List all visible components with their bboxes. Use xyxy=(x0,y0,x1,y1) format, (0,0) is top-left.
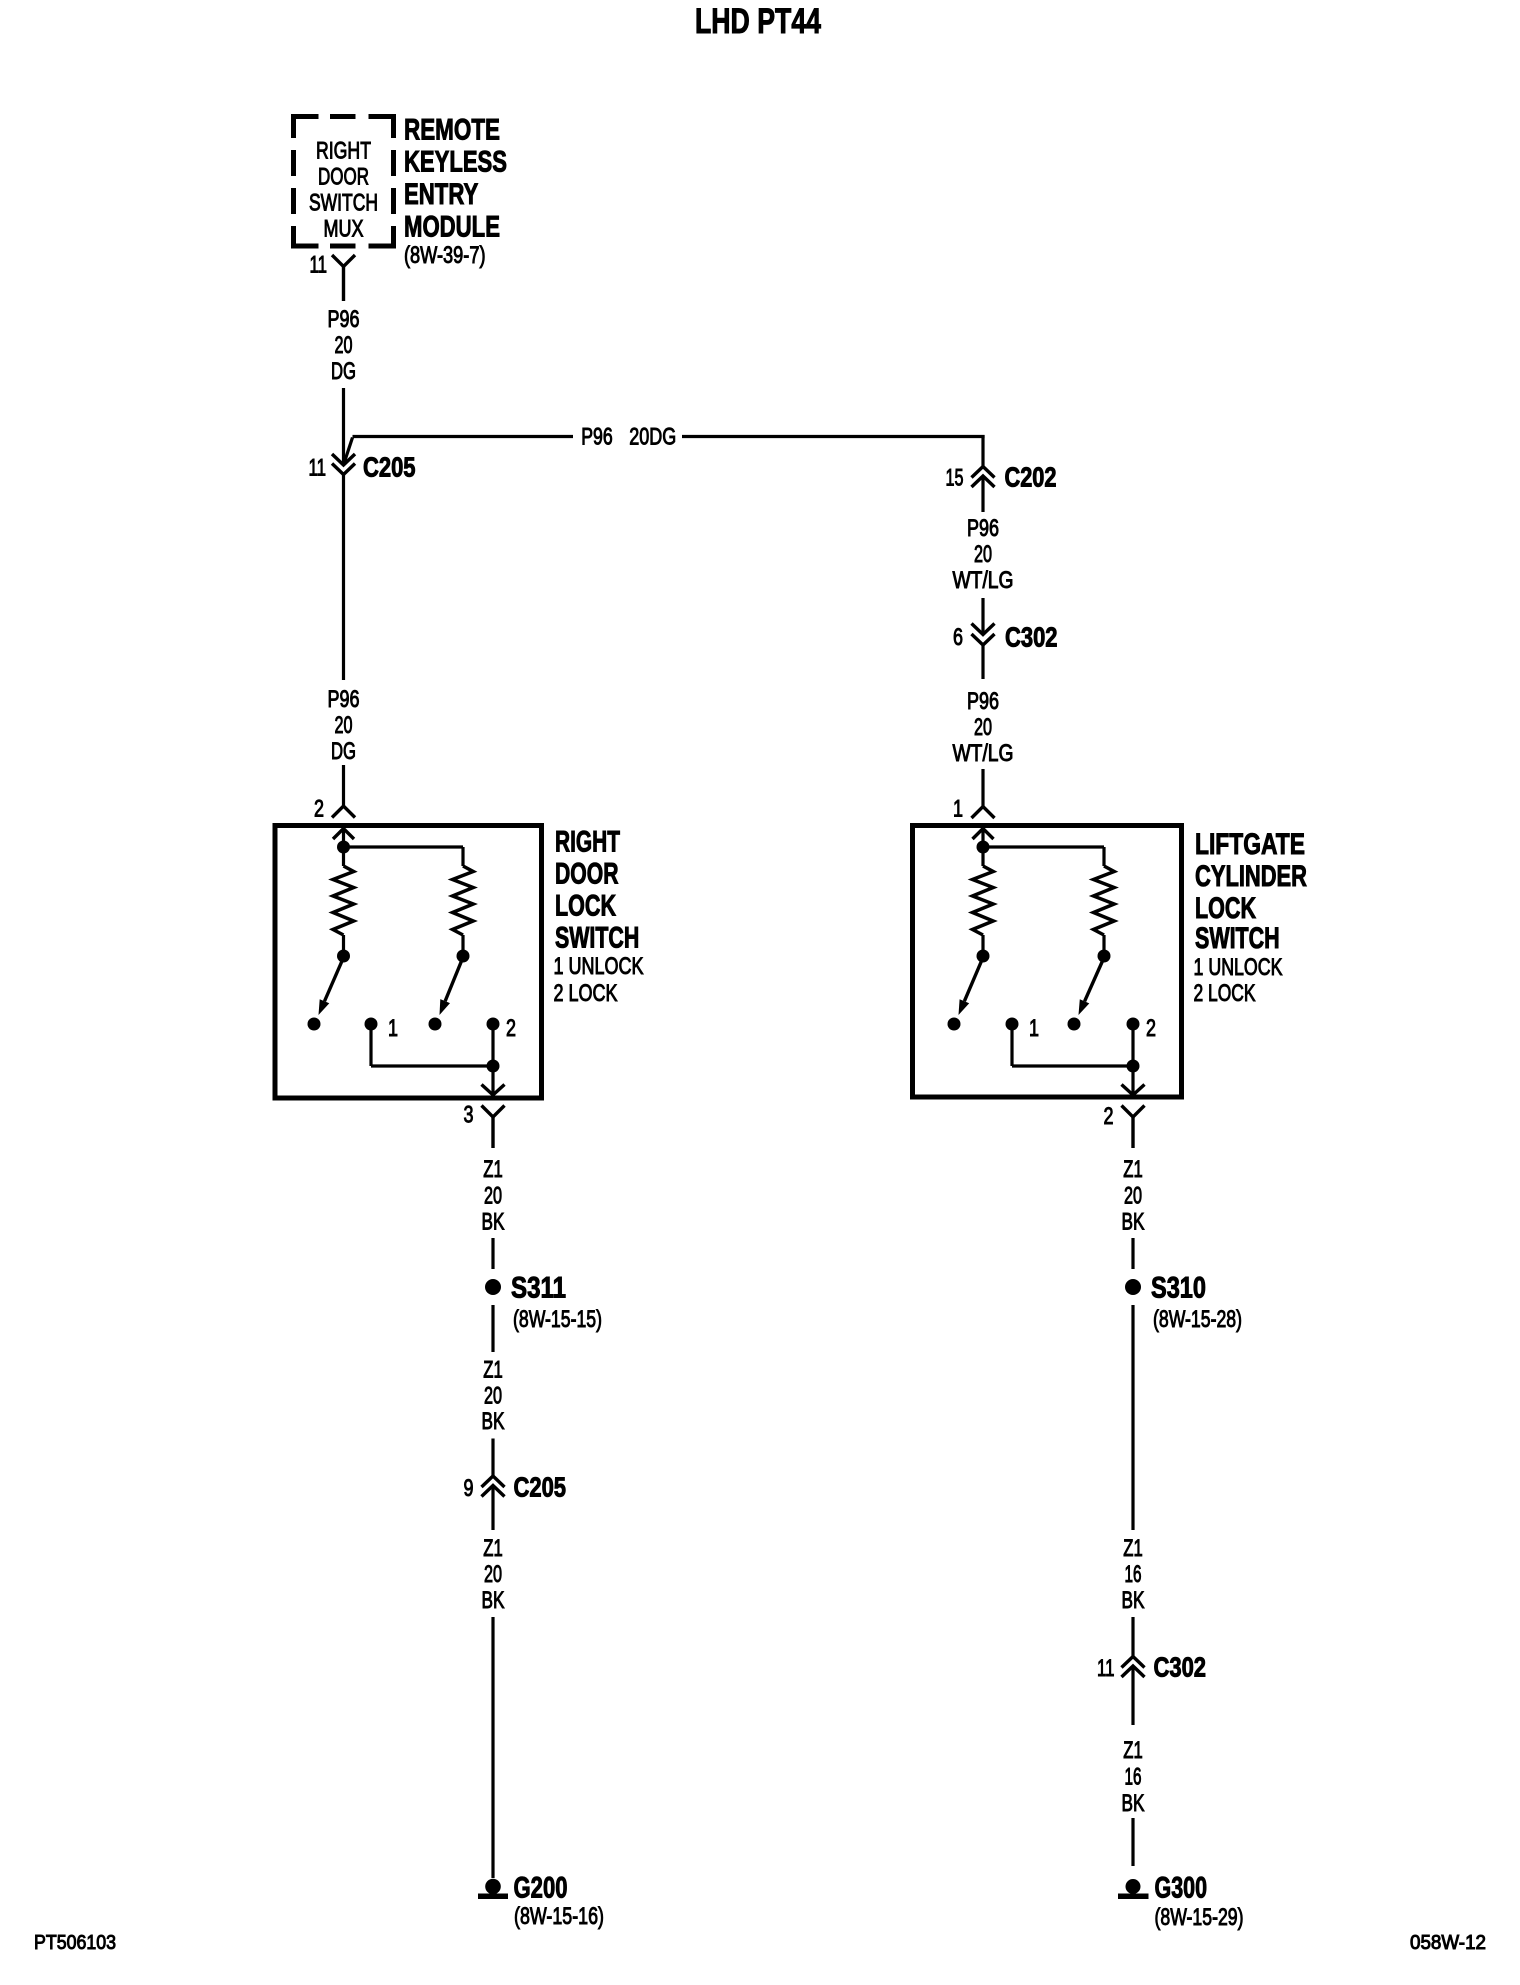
common node dot xyxy=(977,841,990,854)
connector C202 (15) xyxy=(972,467,995,478)
svg-text:BK: BK xyxy=(482,1408,505,1435)
svg-text:S310: S310 xyxy=(1151,1272,1206,1305)
connector C302 (11) lower xyxy=(1122,1657,1145,1668)
svg-text:Z1: Z1 xyxy=(1123,1156,1143,1183)
svg-text:15: 15 xyxy=(946,465,964,492)
switch wiper arrow right xyxy=(1085,961,1103,1001)
svg-text:Z1: Z1 xyxy=(1123,1535,1143,1562)
svg-text:2 LOCK: 2 LOCK xyxy=(554,980,618,1007)
svg-text:C202: C202 xyxy=(1005,462,1057,493)
svg-text:20: 20 xyxy=(335,332,353,359)
svg-text:REMOTE: REMOTE xyxy=(404,114,500,147)
svg-text:(8W-15-16): (8W-15-16) xyxy=(514,1903,604,1930)
svg-text:16: 16 xyxy=(1125,1561,1142,1588)
svg-text:1 UNLOCK: 1 UNLOCK xyxy=(1194,954,1283,981)
wire WT/LG to C302 xyxy=(981,598,984,635)
wire label Z1 20 BK xyxy=(1122,1156,1145,1236)
svg-text:C205: C205 xyxy=(514,1472,567,1503)
svg-text:SWITCH: SWITCH xyxy=(555,922,639,955)
svg-text:(8W-39-7): (8W-39-7) xyxy=(404,242,486,269)
svg-text:Z1: Z1 xyxy=(483,1156,503,1183)
resistor (lock side) xyxy=(1094,866,1115,935)
svg-text:11: 11 xyxy=(310,252,328,279)
svg-text:9: 9 xyxy=(464,1475,474,1502)
svg-text:Z1: Z1 xyxy=(1123,1737,1143,1764)
svg-text:SWITCH: SWITCH xyxy=(1195,922,1280,955)
wire label P96 20 WT/LG xyxy=(953,688,1014,767)
svg-text:MUX: MUX xyxy=(324,216,364,243)
svg-text:P96: P96 xyxy=(967,515,999,542)
contact dot terminal 2 xyxy=(487,1018,500,1031)
svg-text:2: 2 xyxy=(1146,1015,1156,1042)
svg-text:2 LOCK: 2 LOCK xyxy=(1194,980,1256,1007)
svg-text:2: 2 xyxy=(506,1015,516,1042)
module inner label xyxy=(309,137,378,242)
wire BK to splice xyxy=(1131,1238,1134,1269)
wire BK to ground G300 xyxy=(1131,1818,1134,1866)
svg-text:LOCK: LOCK xyxy=(555,890,616,923)
svg-text:CYLINDER: CYLINDER xyxy=(1195,860,1307,893)
pin 2 connector (male) xyxy=(332,806,355,818)
wire DG to pin 2 xyxy=(342,765,345,806)
wire C302 to Z1 xyxy=(1131,1666,1134,1725)
wire terminal 1 to output node xyxy=(369,1024,372,1066)
splice S310 xyxy=(1125,1279,1141,1295)
wire DG to C205 xyxy=(342,388,345,465)
svg-text:RIGHT: RIGHT xyxy=(316,137,371,164)
wire C302 to P96 label xyxy=(981,645,984,679)
svg-text:P96: P96 xyxy=(328,306,360,333)
pin 1 connector (male) xyxy=(972,807,995,819)
svg-text:058W-12: 058W-12 xyxy=(1410,1932,1486,1954)
pin exit arrow inside box xyxy=(1122,1085,1145,1096)
svg-text:1: 1 xyxy=(1029,1015,1039,1042)
svg-text:11: 11 xyxy=(1097,1655,1115,1682)
wiper pivot dot left xyxy=(981,935,984,950)
svg-text:20DG: 20DG xyxy=(629,424,676,451)
svg-text:3: 3 xyxy=(464,1102,474,1129)
right door lock switch box xyxy=(275,826,542,1099)
wire branch to resistor 2 xyxy=(344,845,464,848)
wiper pivot dot right xyxy=(1102,935,1105,950)
splice S311 xyxy=(485,1279,501,1295)
wire C202 to P96 label xyxy=(981,476,984,512)
svg-text:11: 11 xyxy=(309,455,327,482)
wire C205 to P96 label xyxy=(342,475,345,681)
pin entry arrow inside box xyxy=(973,829,994,840)
contact dot terminal 1 xyxy=(365,1018,378,1031)
wire label Z1 20 BK xyxy=(482,1357,505,1436)
pin 11 connector (female Y) xyxy=(332,255,355,267)
svg-text:20: 20 xyxy=(484,1561,502,1588)
svg-text:BK: BK xyxy=(482,1587,505,1614)
wire node to exit xyxy=(1131,1066,1134,1095)
wire label P96 20DG (horizontal) xyxy=(581,424,676,451)
svg-text:1: 1 xyxy=(388,1015,398,1042)
svg-text:BK: BK xyxy=(1122,1790,1145,1817)
pin 2 connector (female Y) xyxy=(1122,1106,1145,1118)
wire WT/LG to pin 1 xyxy=(981,769,984,807)
wire node to exit xyxy=(491,1066,494,1095)
svg-text:P96: P96 xyxy=(967,688,999,715)
svg-text:Z1: Z1 xyxy=(483,1357,503,1384)
svg-text:WT/LG: WT/LG xyxy=(953,567,1014,594)
svg-text:P96: P96 xyxy=(328,686,360,713)
wire label Z1 20 BK xyxy=(482,1535,505,1614)
svg-text:C302: C302 xyxy=(1154,1652,1207,1683)
module name REMOTE KEYLESS ENTRY MODULE (8W-39-7) xyxy=(404,114,507,269)
svg-text:16: 16 xyxy=(1125,1764,1142,1791)
pin entry arrow inside box xyxy=(333,829,354,840)
connector C205 (11) top xyxy=(332,454,355,465)
svg-text:C302: C302 xyxy=(1005,622,1058,653)
wire label Z1 16 BK xyxy=(1122,1737,1145,1817)
wire entry to common node xyxy=(342,829,345,848)
resistor (unlock side) xyxy=(981,847,984,866)
liftgate cylinder lock switch box xyxy=(913,826,1182,1098)
svg-text:G200: G200 xyxy=(514,1872,568,1905)
svg-text:KEYLESS: KEYLESS xyxy=(404,146,507,179)
wire BK to splice xyxy=(491,1238,494,1269)
svg-text:LHD PT44: LHD PT44 xyxy=(695,2,821,41)
wire branch to resistor 2 xyxy=(983,845,1104,848)
svg-text:2: 2 xyxy=(314,796,324,823)
contact dot (open) 2 xyxy=(1068,1018,1081,1031)
svg-text:2: 2 xyxy=(1104,1103,1114,1130)
svg-text:20: 20 xyxy=(484,1183,502,1210)
pin 3 connector (female Y) xyxy=(482,1106,505,1118)
connector C302 (6) xyxy=(972,624,995,635)
resistor (lock side) xyxy=(453,866,474,935)
common node dot xyxy=(337,841,350,854)
wire BK to C302 xyxy=(1131,1617,1134,1657)
wiper pivot dot left xyxy=(342,935,345,950)
svg-text:LIFTGATE: LIFTGATE xyxy=(1195,828,1305,861)
wire BK to ground G200 xyxy=(491,1617,494,1878)
svg-text:P96: P96 xyxy=(581,424,613,451)
wire splice to Z1 xyxy=(491,1305,494,1352)
box label LIFTGATE CYLINDER LOCK SWITCH xyxy=(1194,828,1308,1007)
contact dot terminal 2 xyxy=(1127,1018,1140,1031)
switch wiper arrow left xyxy=(964,961,981,1001)
wire label P96 20 WT/LG xyxy=(953,515,1014,594)
module Right Door Switch Mux (dashed box) xyxy=(291,114,396,249)
wire BK to C205 xyxy=(491,1439,494,1477)
contact dot (open) xyxy=(948,1018,961,1031)
wire horizontal P96 branch left part xyxy=(353,435,574,438)
svg-text:G300: G300 xyxy=(1155,1872,1208,1905)
connector C205 (9) lower xyxy=(482,1476,505,1487)
wire terminal 2 to output node xyxy=(491,1024,494,1066)
wire junction branch diagonal xyxy=(344,438,353,465)
svg-text:(8W-15-28): (8W-15-28) xyxy=(1153,1306,1242,1333)
wiper pivot dot right xyxy=(461,935,464,950)
svg-text:PT506103: PT506103 xyxy=(34,1932,116,1954)
svg-text:MODULE: MODULE xyxy=(404,211,500,244)
switch wiper arrow left xyxy=(324,961,342,1001)
svg-text:SWITCH: SWITCH xyxy=(309,190,378,217)
svg-text:(8W-15-15): (8W-15-15) xyxy=(513,1306,602,1333)
box label RIGHT DOOR LOCK SWITCH xyxy=(554,826,644,1008)
wire splice to Z1 xyxy=(1131,1305,1134,1530)
svg-text:(8W-15-29): (8W-15-29) xyxy=(1155,1904,1244,1931)
svg-text:DOOR: DOOR xyxy=(555,858,619,891)
wire terminal 2 to output node xyxy=(1131,1024,1134,1066)
svg-text:ENTRY: ENTRY xyxy=(404,178,478,211)
svg-text:DG: DG xyxy=(331,358,356,385)
svg-text:RIGHT: RIGHT xyxy=(555,826,620,859)
wire horizontal P96 branch right part xyxy=(682,435,985,438)
svg-text:BK: BK xyxy=(1122,1587,1145,1614)
pin exit arrow inside box xyxy=(482,1085,505,1096)
svg-text:20: 20 xyxy=(484,1383,502,1410)
ground G300 xyxy=(1126,1879,1141,1894)
output node dot xyxy=(1127,1060,1140,1073)
svg-text:LOCK: LOCK xyxy=(1195,892,1256,925)
wire label Z1 16 BK xyxy=(1122,1535,1145,1614)
wire label Z1 20 BK xyxy=(482,1156,505,1236)
svg-text:BK: BK xyxy=(1122,1209,1145,1236)
svg-text:S311: S311 xyxy=(511,1272,566,1305)
output node dot xyxy=(487,1060,500,1073)
svg-text:20: 20 xyxy=(974,541,992,568)
svg-text:20: 20 xyxy=(1124,1183,1142,1210)
svg-text:6: 6 xyxy=(953,624,963,651)
svg-text:Z1: Z1 xyxy=(483,1535,503,1562)
resistor (unlock side) xyxy=(342,847,345,866)
svg-text:DOOR: DOOR xyxy=(318,164,369,191)
contact dot (open) 2 xyxy=(429,1018,442,1031)
svg-text:C205: C205 xyxy=(363,452,416,483)
svg-text:1 UNLOCK: 1 UNLOCK xyxy=(554,953,644,980)
svg-text:20: 20 xyxy=(335,712,353,739)
wire label P96 20 DG xyxy=(328,306,360,385)
wire label P96 20 DG xyxy=(328,686,360,765)
contact dot (open) xyxy=(308,1018,321,1031)
ground G200 xyxy=(485,1879,501,1895)
svg-text:DG: DG xyxy=(331,738,356,765)
switch wiper arrow right xyxy=(445,961,461,1001)
svg-text:WT/LG: WT/LG xyxy=(953,740,1014,767)
contact dot terminal 1 xyxy=(1006,1018,1019,1031)
svg-text:1: 1 xyxy=(953,796,963,823)
svg-text:20: 20 xyxy=(974,714,992,741)
wire terminal 1 to output node xyxy=(1010,1024,1013,1066)
wire entry to common node xyxy=(981,829,984,848)
svg-text:BK: BK xyxy=(482,1209,505,1236)
wire C205 to Z1 xyxy=(491,1486,494,1531)
